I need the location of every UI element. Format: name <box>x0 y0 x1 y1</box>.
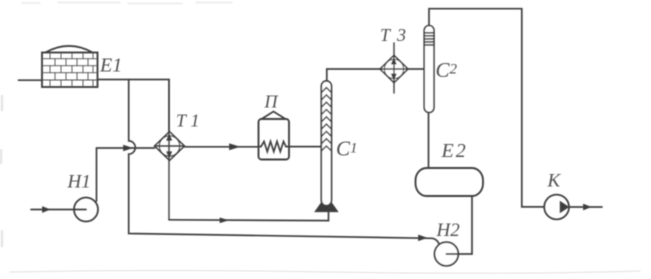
svg-text:Е1: Е1 <box>99 55 122 77</box>
svg-text:С1: С1 <box>336 137 358 161</box>
pipe E1 to T1 top corner <box>98 80 170 132</box>
pipe inlet to E1 <box>19 79 43 81</box>
label E2 <box>441 140 466 162</box>
pipe H1 outlet up to main feed line <box>96 148 98 201</box>
pipe C1 bottoms run to T1 with arrow <box>169 211 329 222</box>
label П <box>264 92 279 112</box>
furnace П coil <box>259 141 290 151</box>
pipe K outlet with arrow <box>569 204 602 210</box>
pipe C2 overhead to right loop down to K <box>429 9 544 207</box>
label K <box>547 171 562 192</box>
label T3 <box>380 25 406 45</box>
pipe furnace to C1 <box>289 146 321 148</box>
svg-text:Е2: Е2 <box>441 140 466 162</box>
label E1 <box>99 55 122 77</box>
pump H1 inlet with arrow <box>31 207 75 213</box>
pump H2 <box>435 242 473 266</box>
tank E1 roof <box>46 46 93 52</box>
pipe C1 overhead to T3 and C2 <box>327 69 424 81</box>
column C2 packing hatch <box>424 33 434 45</box>
column C1 shell <box>321 81 331 206</box>
scan artifact left streaks <box>1 96 2 246</box>
drum E2 <box>416 168 484 196</box>
scan artifact top specks <box>22 3 232 4</box>
heat exchanger T3 <box>380 43 408 93</box>
pump H1 <box>74 198 98 222</box>
main feed line H1 to C1 with hop over vertical <box>97 145 155 151</box>
svg-text:Т3: Т3 <box>380 25 406 45</box>
svg-text:Н1: Н1 <box>67 172 91 193</box>
label T1 <box>176 111 200 131</box>
furnace П body <box>259 112 290 160</box>
tank E1 body <box>42 53 98 88</box>
pipe E2 to H2 <box>471 196 473 254</box>
column C1 packing chevrons <box>322 88 332 151</box>
pump K <box>544 195 569 220</box>
label C2 <box>436 58 458 82</box>
pipe vertical from E1 line down to bottom run to H2 <box>129 80 440 245</box>
heat exchanger T1 <box>155 80 185 220</box>
pipe C2 bottom to E2 <box>428 113 430 169</box>
svg-text:П: П <box>264 92 279 112</box>
svg-text:С2: С2 <box>436 58 458 82</box>
label H2 <box>436 220 461 241</box>
svg-text:Т 1: Т 1 <box>176 111 200 131</box>
label C1 <box>336 137 358 161</box>
label H1 <box>67 172 91 193</box>
column C1 skirt <box>316 196 338 211</box>
svg-text:К: К <box>547 171 562 192</box>
column C2 shell <box>424 26 434 113</box>
main feed line T1 to furnace <box>185 144 259 150</box>
tank E1 brick courses <box>42 53 98 88</box>
scan artifact bottom streak <box>10 271 640 274</box>
svg-text:Н2: Н2 <box>436 220 461 241</box>
